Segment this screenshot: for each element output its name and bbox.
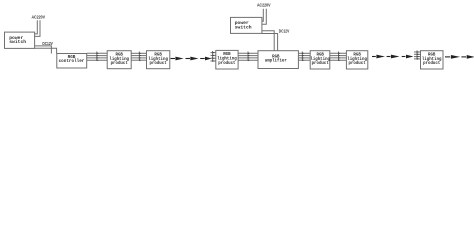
svg-text:product: product bbox=[111, 61, 129, 66]
svg-text:product: product bbox=[218, 61, 236, 66]
power switch PS1 bbox=[5, 32, 35, 48]
RGB amplifier U2 bbox=[258, 51, 298, 69]
AC220V label (middle) bbox=[257, 2, 271, 8]
DC12V label (left) bbox=[42, 42, 53, 46]
AC220V label (left) bbox=[31, 14, 45, 20]
dashed continuation arrows after LP2 bbox=[171, 57, 212, 61]
RGB lighting product LP5 bbox=[346, 51, 367, 69]
DC12V label (middle) bbox=[279, 29, 290, 33]
RGB amplifier label bbox=[265, 55, 288, 63]
svg-text:switch: switch bbox=[235, 24, 252, 30]
svg-text:AC220V: AC220V bbox=[257, 2, 271, 8]
svg-text:RGB: RGB bbox=[428, 53, 436, 57]
svg-text:lighting: lighting bbox=[217, 56, 237, 61]
power switch PS2 bbox=[231, 17, 262, 33]
svg-text:controller: controller bbox=[59, 59, 85, 64]
svg-text:DC12V: DC12V bbox=[279, 29, 290, 33]
wire PS2 to amplifier line2 bbox=[262, 34, 278, 51]
svg-text:lighting: lighting bbox=[109, 57, 129, 62]
LP6 label bbox=[422, 53, 442, 66]
LP1 label bbox=[109, 53, 129, 66]
svg-text:product: product bbox=[348, 61, 366, 66]
svg-text:product: product bbox=[312, 61, 330, 66]
svg-text:RGB: RGB bbox=[154, 53, 162, 57]
wire bundle LP1 to LP2 bbox=[131, 52, 146, 62]
svg-text:RGB: RGB bbox=[317, 53, 325, 57]
wire bundle amplifier to LP4 bbox=[298, 52, 310, 62]
LP5 label bbox=[347, 53, 367, 66]
wire AC220V line2 to PS2 bbox=[262, 9, 266, 24]
LP4 label bbox=[310, 53, 330, 66]
wire AC220V line2 to PS1 bbox=[35, 20, 40, 36]
RGB controller U1 bbox=[57, 54, 87, 69]
dashed continuation arrows after LP6 bbox=[445, 55, 474, 59]
svg-text:lighting: lighting bbox=[310, 57, 330, 62]
power switch PS1 label bbox=[9, 35, 26, 45]
RGB lighting product LP6 bbox=[421, 51, 444, 69]
svg-text:RGB: RGB bbox=[116, 53, 124, 57]
wire PS2 to amplifier line1 bbox=[262, 31, 274, 51]
wire PS1 to controller line2 bbox=[35, 48, 57, 53]
wire bundle controller to LP1 bbox=[87, 52, 108, 62]
RGB lighting product LP1 bbox=[107, 51, 131, 69]
svg-text:lighting: lighting bbox=[347, 57, 367, 62]
RGB lighting product LP3 bbox=[216, 50, 238, 69]
dashed continuation arrows after LP5 bbox=[372, 55, 413, 59]
LP2 label bbox=[148, 53, 168, 66]
RGB lighting product LP4 bbox=[310, 51, 330, 69]
wire bundle LP3 to amplifier bbox=[238, 52, 258, 62]
svg-text:DC12V: DC12V bbox=[42, 42, 53, 46]
svg-text:product: product bbox=[149, 61, 167, 66]
wire AC220V line1 to PS1 bbox=[35, 20, 38, 34]
RGB controller label bbox=[59, 55, 85, 64]
svg-text:product: product bbox=[423, 61, 441, 66]
power switch PS2 label bbox=[235, 20, 252, 30]
wire AC220V line1 to PS2 bbox=[262, 9, 263, 21]
wire PS1 to controller line1 bbox=[35, 46, 52, 54]
svg-text:lighting: lighting bbox=[148, 57, 168, 62]
svg-text:AC220V: AC220V bbox=[31, 14, 45, 20]
wire bundle LP4 to LP5 bbox=[330, 52, 346, 62]
svg-text:RGB: RGB bbox=[353, 53, 361, 57]
entry stubs into LP3 bbox=[211, 51, 216, 62]
RGB lighting product LP2 bbox=[147, 51, 170, 69]
svg-text:amplifier: amplifier bbox=[265, 58, 288, 63]
svg-text:RGB: RGB bbox=[223, 53, 231, 57]
LP3 label bbox=[217, 53, 237, 66]
svg-text:lighting: lighting bbox=[422, 57, 442, 62]
svg-text:switch: switch bbox=[9, 39, 26, 45]
entry stubs into LP6 bbox=[414, 50, 421, 59]
